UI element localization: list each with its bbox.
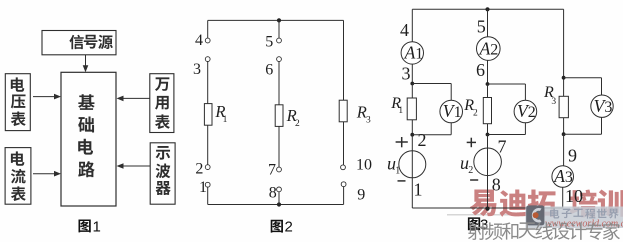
fig3 ammeter A1 (401, 42, 423, 64)
fig3 resistor R3 f3 (559, 96, 568, 117)
svg-text:9: 9 (568, 146, 577, 166)
fig3 V2 top stub (488, 83, 526, 85)
watermark red text 易迪拓培训 (470, 190, 497, 217)
fig3 source us2 (474, 148, 502, 176)
fig3 wire node3 to R1 (411, 84, 413, 99)
fig1 arrow signal->base (85, 55, 87, 67)
fig2 resistor R2 (275, 105, 283, 127)
fig2 wire 9 to bottom (343, 187, 345, 205)
svg-text:8: 8 (492, 175, 501, 195)
fig2 wire right drop (343, 20, 345, 100)
svg-text:1: 1 (93, 218, 101, 235)
fig3 node 6 junction (486, 82, 490, 86)
svg-text:2: 2 (528, 104, 536, 121)
svg-text:3: 3 (604, 99, 612, 116)
svg-text:2: 2 (195, 161, 203, 178)
eeworld text 电子工程世界 (550, 209, 559, 219)
fig3 source us1 (399, 151, 426, 178)
fig2 terminal 1 (205, 182, 210, 187)
fig1 arrow oscilloscope->base (123, 165, 151, 167)
fig3 V3 top stub (564, 77, 602, 79)
fig3 resistor R2 f3 (483, 98, 491, 124)
fig2 top wire (208, 19, 344, 21)
svg-text:2: 2 (490, 42, 498, 59)
svg-text:6: 6 (265, 62, 273, 79)
fig3 bottom junction (485, 207, 489, 211)
fig2 wire R2 to 7 (278, 126, 280, 167)
fig2 top junction (277, 18, 281, 22)
svg-text:2: 2 (418, 130, 427, 150)
fig2 terminal 10 (341, 165, 346, 170)
svg-text:A: A (479, 39, 491, 59)
fig2 wire 3 to R1 (207, 62, 209, 104)
svg-text:7: 7 (268, 161, 276, 178)
fig1 signal-source box 信号源 (42, 31, 116, 55)
svg-text:1: 1 (398, 106, 403, 116)
svg-text:3: 3 (402, 63, 411, 83)
fig2 terminal 3 (205, 57, 210, 62)
svg-text:1: 1 (395, 165, 400, 176)
fig3 wire through source u1 (411, 135, 413, 208)
fig3 voltmeter V1 (440, 100, 463, 123)
svg-text:5: 5 (265, 34, 273, 51)
fig1 oscilloscope box 示波器 (150, 143, 175, 204)
fig3 wire top to R3 (563, 9, 565, 96)
fig2 bottom wire (208, 204, 344, 206)
fig2 terminal 4 (205, 38, 210, 43)
svg-text:1: 1 (199, 179, 207, 196)
svg-text:8: 8 (269, 185, 277, 202)
fig3 wire top to A2 (487, 9, 489, 37)
svg-text:2: 2 (295, 119, 300, 129)
fig3 resistor R1 (407, 98, 416, 120)
svg-text:10: 10 (565, 186, 583, 206)
svg-text:2: 2 (473, 108, 478, 118)
fig3 wire A2 to node6 (487, 60, 489, 84)
fig3 wire to A3 (563, 134, 565, 166)
fig3 ammeter A2 (477, 37, 501, 61)
fig3 wire A1 to node3 (411, 64, 413, 83)
fig1 voltmeter box 电压表 (5, 74, 30, 131)
fig1 base-circuit box 基础电路 (61, 72, 116, 206)
fig2 resistor R1 (204, 104, 212, 126)
eeworld d glyph (526, 205, 544, 225)
watermark faint rule (447, 214, 527, 216)
fig2 wire left drop (207, 20, 209, 38)
fig2 wire R3 to 10 (343, 122, 345, 165)
fig1 arrow multimeter->base (123, 97, 150, 99)
fig2 resistor R3 (339, 100, 347, 122)
fig2 wire 6 to R2 (278, 62, 280, 105)
fig1 arrow ammeter->base (33, 173, 55, 175)
fig3 node 7 junction (486, 133, 490, 137)
fig2 terminal 7 (277, 167, 282, 172)
fig2 bottom junction (277, 202, 281, 206)
svg-text:A: A (404, 42, 416, 62)
fig3 wire R2 to node7 (487, 124, 489, 135)
svg-text:3: 3 (551, 97, 556, 107)
svg-text:4: 4 (400, 20, 409, 40)
fig3 plus sign u2 (467, 141, 476, 143)
fig2 caption 图2 (271, 220, 283, 233)
svg-text:9: 9 (357, 186, 365, 203)
fig1 multimeter box 万用表 (150, 74, 174, 133)
fig2 terminal 6 (277, 57, 282, 62)
fig3 wire through source u2 (487, 135, 489, 209)
svg-text:3: 3 (366, 115, 371, 125)
svg-text:3: 3 (193, 61, 201, 78)
fig3 bottom wire (412, 207, 562, 209)
svg-text:4: 4 (195, 32, 203, 49)
fig3 minus sign u2 (470, 179, 478, 181)
fig3 ammeter A3 (552, 166, 574, 188)
fig2 wire 1 to bottom (207, 187, 209, 204)
fig3 wire R3 to lower junction (563, 118, 565, 135)
fig2 wire R1 to 2 (207, 125, 209, 165)
fig2 terminal 9 (341, 182, 346, 187)
svg-text:10: 10 (356, 157, 372, 174)
fig3 V3 bottom stub (601, 117, 603, 134)
fig3 lower junction right (562, 132, 566, 136)
svg-text:5: 5 (477, 16, 486, 36)
fig3 top junction (485, 7, 489, 11)
fig2 terminal 5 (277, 38, 282, 43)
fig3 node 2 junction (410, 133, 414, 137)
fig3 wire top to A1 (411, 9, 413, 41)
fig2 wire mid drop (278, 20, 280, 38)
fig3 plus sign u1 (396, 141, 408, 143)
svg-text:A: A (553, 166, 565, 186)
fig3 minus sign u1 (398, 180, 406, 182)
fig3 V1 top stub (412, 83, 451, 85)
svg-text:2: 2 (285, 218, 293, 235)
svg-text:1: 1 (415, 45, 423, 62)
fig2 wire 8 to bottom (278, 192, 280, 205)
eeworld logo block (526, 207, 623, 229)
fig3 wire node6 to R2 (487, 84, 489, 98)
watermark slogan 射频和天线设计专家 (468, 222, 486, 240)
fig3 voltmeter V2 (514, 100, 537, 123)
fig3 wire A3 to bottom (562, 187, 564, 208)
fig3 caption 图3 (468, 217, 480, 230)
fig3 wire R1 to node2 (411, 120, 413, 135)
fig3 V2 bottom stub (524, 123, 526, 135)
fig3 upper junction right (562, 76, 566, 80)
fig1 arrow voltmeter->base (33, 96, 55, 98)
fig1 ammeter box 电流表 (5, 148, 31, 205)
fig3 V1 bottom stub (450, 123, 452, 135)
fig1 caption 图1 (78, 220, 90, 233)
fig3 voltmeter V3 (591, 95, 613, 117)
fig3 top wire (412, 8, 563, 10)
svg-text:1: 1 (223, 115, 228, 125)
svg-text:3: 3 (565, 169, 573, 186)
svg-text:1: 1 (414, 180, 423, 200)
svg-text:2: 2 (468, 165, 473, 176)
fig3 node 3 junction (410, 82, 414, 86)
fig2 terminal 8 (277, 187, 282, 192)
svg-text:1: 1 (454, 104, 462, 121)
svg-text:6: 6 (476, 60, 485, 80)
fig2 terminal 2 (205, 165, 210, 170)
